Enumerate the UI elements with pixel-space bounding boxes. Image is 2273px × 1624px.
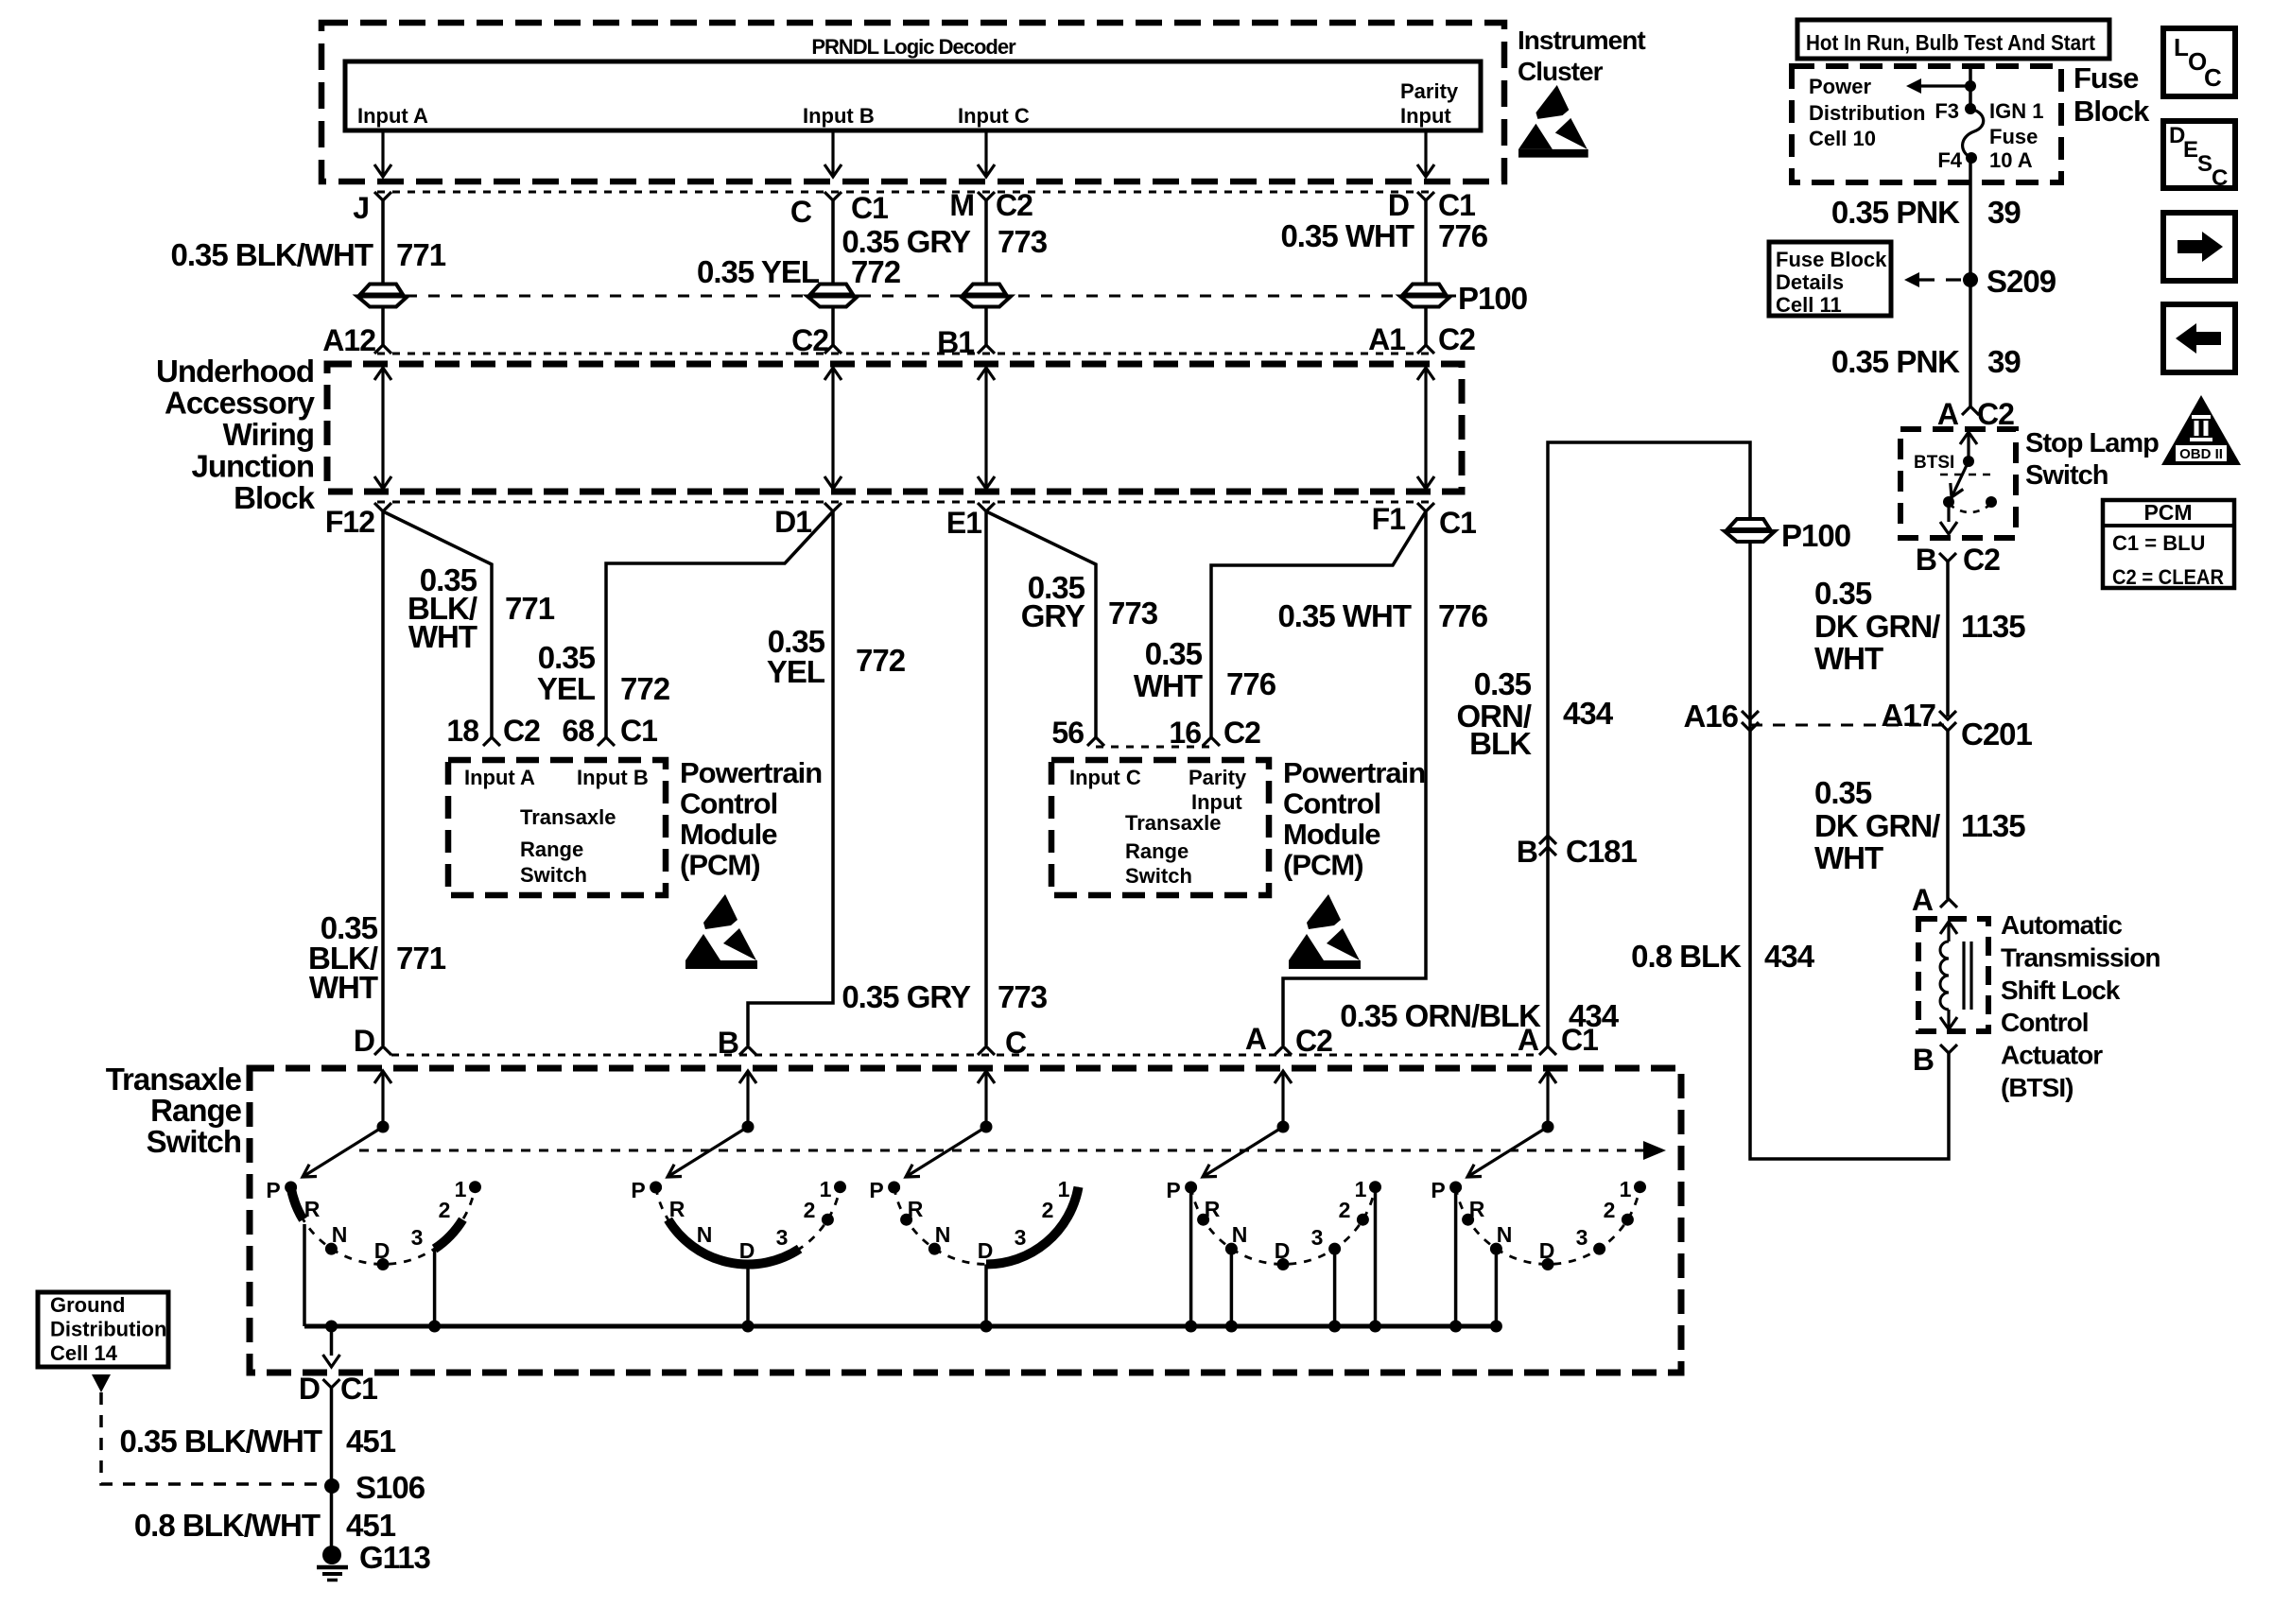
svg-text:Module: Module (1283, 818, 1380, 851)
wire Parity output arrow (1424, 130, 1427, 176)
wire 773 branch to PCM pin 56 (986, 511, 1096, 737)
PCM connector legend box (2103, 500, 2234, 589)
wire label 0.35 PNK 39 (lower) (1831, 344, 2021, 379)
svg-text:D: D (374, 1238, 390, 1263)
ground distribution pointer triangle (92, 1374, 111, 1392)
svg-text:Block: Block (234, 480, 316, 515)
svg-text:1: 1 (1058, 1177, 1070, 1201)
svg-text:Control: Control (680, 787, 777, 821)
label Powertrain Control Module (PCM) 2 (1283, 756, 1425, 882)
wire 771 to TRS pin D (381, 511, 385, 1045)
svg-text:B: B (1916, 543, 1936, 577)
svg-text:1: 1 (1620, 1177, 1632, 1201)
label Stop Lamp Switch (2025, 428, 2159, 491)
connector M (female Y) (978, 192, 995, 200)
connector J (female Y) (374, 192, 391, 200)
svg-text:Distribution: Distribution (50, 1318, 166, 1341)
svg-text:P: P (631, 1178, 645, 1202)
svg-text:0.35: 0.35 (538, 640, 596, 675)
wire label 0.35 WHT 776 (branch) (1134, 636, 1276, 703)
svg-text:2: 2 (804, 1198, 816, 1222)
svg-text:C1: C1 (340, 1372, 377, 1406)
svg-text:WHT: WHT (1814, 840, 1883, 875)
svg-text:IGN 1: IGN 1 (1989, 99, 2043, 123)
svg-text:Switch: Switch (2025, 460, 2108, 491)
rotary switch 2 (pin B) (631, 1177, 846, 1333)
svg-text:S: S (2197, 151, 2212, 177)
dashed arrow to fuse block details (1904, 272, 1919, 287)
svg-text:Distribution: Distribution (1809, 101, 1925, 125)
svg-text:C: C (2204, 63, 2222, 92)
grommet P100 at x=405 (360, 285, 403, 295)
wire 776 segment (1424, 200, 1428, 285)
svg-text:39: 39 (1987, 195, 2021, 230)
svg-text:R: R (1469, 1197, 1485, 1221)
connector A16 (1742, 711, 1759, 731)
svg-text:Module: Module (680, 818, 777, 851)
svg-text:Cell 11: Cell 11 (1776, 293, 1842, 317)
PRNDL Logic Decoder box (345, 61, 1481, 130)
PCM pin connector x=1159 (1087, 737, 1104, 746)
ground G113 (317, 1540, 431, 1581)
wire 434 BLK down to actuator B (1750, 543, 1949, 1159)
svg-text:A1: A1 (1368, 322, 1405, 356)
svg-text:Parity: Parity (1400, 79, 1459, 103)
svg-text:A: A (1518, 1023, 1539, 1057)
fuse F4 terminal (1966, 152, 1977, 164)
svg-text:Control: Control (2001, 1008, 2089, 1037)
switch 1 R-contact drop (bus left corner) (303, 1224, 306, 1326)
connector A/C2 (stop lamp switch) (1962, 406, 1979, 415)
svg-text:773: 773 (998, 224, 1048, 259)
connector below junction block x=405 (374, 503, 391, 511)
grommet P100 (right) (1727, 519, 1770, 529)
svg-text:16: 16 (1169, 716, 1201, 750)
label Instrument Cluster (1518, 26, 1645, 86)
svg-text:J: J (353, 191, 369, 225)
svg-text:0.35: 0.35 (1814, 576, 1872, 611)
svg-text:Range: Range (1125, 839, 1189, 863)
svg-text:R: R (669, 1197, 685, 1221)
svg-text:WHT: WHT (408, 619, 477, 654)
wire label 0.35 BLK/WHT 771 (170, 237, 445, 272)
connector below junction block x=1508 (1417, 503, 1434, 511)
connector at junction block x=1508 (1417, 345, 1434, 354)
svg-text:C1: C1 (851, 191, 888, 225)
wire label 0.35 WHT 776 (1280, 218, 1487, 253)
svg-text:Block: Block (2073, 95, 2150, 128)
label Fuse Block (2073, 61, 2150, 128)
connector at junction block x=1043 (978, 345, 995, 354)
connector B/C2 (stop lamp switch out) (1939, 553, 1956, 561)
svg-text:Fuse Block: Fuse Block (1776, 248, 1887, 271)
svg-text:18: 18 (446, 714, 478, 748)
connector B (actuator) (1940, 1045, 1957, 1053)
svg-text:N: N (935, 1222, 951, 1247)
wiper arrow x=1357 (1203, 1127, 1283, 1177)
svg-text:D: D (1539, 1238, 1555, 1263)
svg-text:Actuator: Actuator (2001, 1041, 2103, 1070)
svg-text:1: 1 (820, 1177, 832, 1201)
svg-text:C: C (790, 195, 812, 229)
svg-text:C1: C1 (1561, 1023, 1598, 1057)
svg-text:F3: F3 (1935, 99, 1959, 123)
PCM pin connector x=1281 (1203, 737, 1220, 746)
stop lamp switch internals (1914, 432, 1997, 534)
hot in run header box (1797, 20, 2109, 59)
label Power Distribution Cell 10 (1809, 75, 1925, 150)
wire 771 segment (381, 200, 385, 285)
svg-text:Stop Lamp: Stop Lamp (2025, 428, 2159, 458)
svg-text:Range: Range (150, 1093, 242, 1128)
wire 772 vertical (748, 511, 833, 1045)
branch arrow to power distribution (1919, 84, 1970, 87)
junction block feed-through arrow x=405 (381, 370, 384, 487)
connector at junction block x=881 (824, 345, 842, 354)
wire label 0.35 BLK/WHT 771 (branch) (408, 562, 555, 654)
svg-text:1135: 1135 (1961, 609, 2025, 644)
svg-text:L: L (2174, 33, 2189, 61)
svg-text:Cluster: Cluster (1518, 57, 1604, 86)
TRS pin connector C (978, 1046, 995, 1055)
forward arrow icon box (2163, 213, 2235, 281)
wire 773 segment (984, 200, 988, 285)
svg-text:E1: E1 (946, 506, 981, 540)
svg-text:WHT: WHT (1814, 641, 1883, 676)
svg-text:N: N (332, 1222, 348, 1247)
wire 773 to TRS pin C (984, 511, 988, 1045)
svg-text:P: P (266, 1178, 280, 1202)
svg-text:0.35: 0.35 (1145, 636, 1203, 671)
TRS pin connector A/C1 (1539, 1046, 1556, 1055)
svg-text:Cell 14: Cell 14 (50, 1341, 118, 1365)
connector C (female Y) (824, 192, 842, 200)
svg-text:776: 776 (1438, 218, 1488, 253)
svg-text:434: 434 (1563, 696, 1614, 731)
svg-text:Powertrain: Powertrain (1283, 756, 1425, 789)
svg-text:N: N (697, 1222, 713, 1247)
svg-text:0.35 PNK: 0.35 PNK (1831, 344, 1960, 379)
svg-text:F12: F12 (325, 505, 374, 539)
svg-text:3: 3 (1311, 1225, 1324, 1250)
rotary switch 3 (pin C) (869, 1177, 1078, 1333)
svg-text:0.35 WHT: 0.35 WHT (1277, 598, 1411, 633)
svg-text:Cell 10: Cell 10 (1809, 127, 1876, 150)
fuse block details box (1769, 242, 1891, 316)
svg-text:F4: F4 (1937, 148, 1962, 172)
svg-text:C2: C2 (1963, 543, 2000, 577)
svg-text:Ground: Ground (50, 1293, 125, 1317)
splice S106 (324, 1478, 339, 1494)
transaxle range switch input box (PCM 2) (1051, 760, 1269, 895)
svg-text:776: 776 (1226, 666, 1276, 701)
svg-text:A12: A12 (322, 323, 375, 357)
svg-text:Input A: Input A (464, 766, 535, 789)
svg-text:Shift Lock: Shift Lock (2001, 976, 2121, 1005)
wire 451 to ground (330, 1388, 334, 1546)
rotary switch 1 (pin D) (266, 1177, 481, 1333)
wire 776 segment (1424, 307, 1428, 345)
svg-text:1135: 1135 (1961, 808, 2025, 843)
svg-text:3: 3 (1015, 1225, 1027, 1250)
ESD symbol (PCM 2) (1289, 894, 1361, 969)
wire 1135 lower (1946, 731, 1950, 899)
DESC icon box (2163, 121, 2235, 191)
fuse F3 terminal (1965, 103, 1976, 114)
svg-text:Input C: Input C (1069, 766, 1141, 789)
wire label 0.35 BLK/WHT 771 (lower) (308, 910, 446, 1005)
svg-text:C201: C201 (1961, 717, 2033, 752)
svg-text:C: C (1005, 1026, 1027, 1060)
svg-text:451: 451 (346, 1424, 396, 1459)
connector line at transaxle range switch (391, 1054, 1541, 1057)
solenoid core bars (1962, 942, 1965, 1010)
svg-text:451: 451 (346, 1508, 396, 1543)
grommet P100 at x=881 (810, 285, 853, 295)
TRS feed-through arrow x=791 (739, 1071, 756, 1083)
wire label 0.35 BLK/WHT 451 (119, 1424, 395, 1459)
svg-text:C: C (2212, 165, 2228, 191)
grommet line P100 (383, 295, 1456, 298)
svg-text:771: 771 (396, 237, 446, 272)
svg-text:BTSI: BTSI (1914, 453, 1954, 473)
svg-text:PRNDL Logic Decoder: PRNDL Logic Decoder (811, 35, 1016, 59)
PCM pin connector x=520 (483, 737, 500, 746)
svg-text:(BTSI): (BTSI) (2001, 1073, 2073, 1102)
TRS feed-through arrow x=1043 (978, 1071, 995, 1083)
svg-text:Input C: Input C (958, 104, 1030, 128)
svg-text:772: 772 (851, 254, 901, 289)
TRS feed-through arrow x=405 (374, 1071, 391, 1083)
connector below junction block x=1043 (978, 503, 995, 511)
wire label 0.35 PNK 39 (1831, 195, 2021, 230)
svg-text:Switch: Switch (1125, 864, 1192, 888)
svg-text:Input A: Input A (357, 104, 428, 128)
svg-text:D: D (354, 1024, 374, 1058)
svg-text:BLK: BLK (1469, 726, 1532, 761)
TRS feed-through arrow x=1357 (1275, 1071, 1292, 1083)
svg-text:2: 2 (1042, 1198, 1054, 1222)
wire label 0.35 ORN/BLK 434 (lower) (1340, 998, 1619, 1033)
connector A17 (1939, 711, 1956, 731)
TRS common bus (304, 1324, 1498, 1329)
back arrow icon box (2163, 304, 2235, 372)
svg-text:Powertrain: Powertrain (680, 756, 822, 789)
svg-text:D: D (299, 1372, 320, 1406)
svg-text:Transaxle: Transaxle (520, 805, 616, 829)
svg-text:(PCM): (PCM) (680, 849, 760, 882)
svg-text:Power: Power (1809, 75, 1871, 98)
svg-text:C2: C2 (1977, 397, 2014, 431)
connector line below junction block (377, 501, 1431, 504)
wire 772 segment (831, 307, 835, 345)
svg-text:YEL: YEL (537, 671, 596, 706)
svg-text:D: D (1275, 1238, 1291, 1263)
wire 772 branch to PCM pin 68 (606, 511, 833, 737)
svg-text:C1: C1 (1438, 188, 1475, 222)
connector D/C1 (ground output) (323, 1379, 340, 1388)
svg-text:(PCM): (PCM) (1283, 849, 1363, 882)
wire label 0.35 YEL 772 (vertical) (767, 624, 906, 689)
grommet P100 at x=1043 (963, 285, 1006, 295)
svg-text:772: 772 (856, 643, 906, 678)
label Transaxle Range Switch (106, 1062, 242, 1159)
svg-text:0.35 ORN/BLK: 0.35 ORN/BLK (1340, 998, 1541, 1033)
svg-text:P: P (1431, 1178, 1445, 1202)
svg-text:S209: S209 (1987, 264, 2056, 299)
svg-text:Input: Input (1400, 104, 1451, 128)
wire 776 vertical (1283, 511, 1426, 1045)
svg-text:C2: C2 (1295, 1024, 1332, 1058)
svg-text:Switch: Switch (520, 863, 587, 887)
TRS pin connector B (739, 1046, 756, 1055)
rotary switch 4 (pin A/C2) (1166, 1177, 1381, 1333)
svg-text:434: 434 (1764, 939, 1815, 974)
svg-text:B: B (1913, 1043, 1934, 1077)
wire label 0.35 YEL 772 (branch) (537, 640, 670, 706)
svg-text:D: D (1388, 188, 1409, 222)
TRS pin connector A/C2 (1275, 1046, 1292, 1055)
svg-text:YEL: YEL (767, 654, 825, 689)
svg-text:G113: G113 (359, 1540, 431, 1575)
svg-text:1: 1 (455, 1177, 467, 1201)
wire label 0.35 GRY 773 (842, 224, 1047, 259)
svg-text:0.35 WHT: 0.35 WHT (1280, 218, 1414, 253)
wire label 0.35 GRY 773 (branch) (1021, 570, 1158, 633)
svg-text:Underhood: Underhood (156, 354, 314, 389)
svg-text:Control: Control (1283, 787, 1380, 821)
svg-text:A17: A17 (1881, 698, 1935, 733)
svg-text:M: M (949, 188, 974, 222)
svg-text:D: D (978, 1238, 994, 1263)
connector D (female Y) (1417, 192, 1434, 200)
wiper arrow x=1637 (1467, 1127, 1548, 1177)
svg-text:Transaxle: Transaxle (106, 1062, 242, 1097)
rotary switch 5 (pin A/C1) (1431, 1177, 1646, 1333)
connector A (actuator) (1940, 899, 1957, 907)
wire 771 segment (381, 307, 385, 345)
TRS output to ground (330, 1326, 334, 1356)
wire label 0.35 DK GRN/WHT 1135 (lower) (1814, 775, 2025, 875)
svg-text:OBD II: OBD II (2179, 446, 2223, 462)
svg-text:P: P (869, 1178, 883, 1202)
svg-text:Range: Range (520, 838, 583, 861)
svg-text:A: A (1937, 397, 1959, 431)
svg-text:3: 3 (1576, 1225, 1588, 1250)
wire 772 segment (831, 200, 835, 285)
svg-text:Transmission: Transmission (2001, 942, 2160, 972)
pin label Parity Input (1400, 79, 1459, 128)
svg-text:39: 39 (1987, 344, 2021, 379)
wire 1135 upper (1946, 561, 1950, 717)
svg-text:68: 68 (562, 714, 594, 748)
svg-text:2: 2 (1339, 1198, 1351, 1222)
transaxle range switch dashed box (250, 1068, 1681, 1373)
junction block feed-through arrow x=881 (831, 370, 834, 487)
svg-text:B: B (718, 1026, 738, 1060)
wire label 0.35 WHT 776 (vertical) (1277, 598, 1487, 633)
svg-text:WHT: WHT (1134, 668, 1203, 703)
svg-text:0.35 YEL: 0.35 YEL (697, 254, 820, 289)
wire label 0.8 BLK/WHT 451 (134, 1508, 396, 1543)
stop lamp switch dashed box (1900, 429, 2016, 538)
instrument cluster dashed box (321, 23, 1504, 181)
svg-text:A16: A16 (1683, 699, 1738, 734)
svg-text:S106: S106 (356, 1470, 425, 1505)
wire 773 segment (984, 307, 988, 345)
rotor position dashed line with arrow (359, 1149, 1643, 1152)
svg-text:C2: C2 (1223, 716, 1260, 750)
transaxle range switch input box (PCM 1) (448, 760, 666, 895)
svg-text:773: 773 (998, 979, 1048, 1014)
svg-text:E: E (2183, 137, 2198, 163)
label Underhood Accessory Wiring Junction Block (156, 354, 316, 515)
svg-text:D1: D1 (774, 505, 811, 539)
svg-text:WHT: WHT (309, 970, 378, 1005)
label Powertrain Control Module (PCM) 1 (680, 756, 822, 882)
junction block feed-through arrow x=1508 (1424, 370, 1427, 487)
connector line (instrument cluster C1/C2) (377, 191, 1431, 194)
svg-text:0.35 BLK/WHT: 0.35 BLK/WHT (119, 1424, 321, 1459)
svg-text:N: N (1497, 1222, 1513, 1247)
svg-text:Accessory: Accessory (165, 386, 316, 421)
svg-text:DK GRN/: DK GRN/ (1814, 609, 1940, 644)
LOC icon box (2163, 28, 2235, 96)
svg-text:Hot In Run, Bulb Test And Star: Hot In Run, Bulb Test And Start (1806, 30, 2095, 55)
wire 39 PNK upper (1969, 158, 1972, 406)
svg-text:C2: C2 (503, 714, 540, 748)
svg-text:0.8 BLK/WHT: 0.8 BLK/WHT (134, 1508, 321, 1543)
svg-text:R: R (1205, 1197, 1221, 1221)
svg-text:10 A: 10 A (1989, 148, 2033, 172)
actuator solenoid coil (1940, 922, 1971, 1029)
BTSI actuator dashed box (1918, 919, 1988, 1031)
svg-text:C1 = BLU: C1 = BLU (2112, 531, 2205, 555)
svg-text:PCM: PCM (2143, 500, 2192, 525)
svg-text:C1: C1 (620, 714, 657, 748)
TRS feed-through arrow x=1637 (1539, 1071, 1556, 1083)
svg-text:776: 776 (1438, 598, 1488, 633)
svg-text:0.35: 0.35 (1814, 775, 1872, 810)
wire Input C output arrow (984, 130, 987, 176)
svg-text:Transaxle: Transaxle (1125, 811, 1222, 835)
svg-text:Wiring: Wiring (223, 417, 314, 452)
svg-text:GRY: GRY (1021, 598, 1085, 633)
wire label 0.35 YEL 772 (697, 254, 901, 289)
power distribution dashed box (1792, 66, 2061, 182)
svg-text:773: 773 (1108, 596, 1158, 631)
svg-text:Instrument: Instrument (1518, 26, 1645, 55)
svg-text:1: 1 (1355, 1177, 1367, 1201)
connector below junction block x=881 (824, 503, 842, 511)
svg-text:Input B: Input B (577, 766, 649, 789)
svg-text:Parity: Parity (1189, 766, 1247, 789)
svg-text:3: 3 (411, 1225, 424, 1250)
svg-text:0.8 BLK: 0.8 BLK (1631, 939, 1742, 974)
TRS pin connector D (374, 1046, 391, 1055)
svg-text:Fuse: Fuse (1989, 125, 2038, 148)
svg-text:C2: C2 (996, 188, 1032, 222)
svg-text:Junction: Junction (192, 449, 315, 484)
svg-text:C2: C2 (1438, 322, 1475, 356)
svg-text:771: 771 (505, 591, 555, 626)
svg-text:C181: C181 (1566, 834, 1638, 869)
svg-text:0.35 GRY: 0.35 GRY (842, 979, 971, 1014)
svg-text:C1: C1 (1439, 506, 1476, 540)
wire label 0.35 ORN/BLK 434 (upper) (1457, 666, 1614, 761)
svg-text:0.35 PNK: 0.35 PNK (1831, 195, 1960, 230)
svg-text:2: 2 (439, 1198, 451, 1222)
